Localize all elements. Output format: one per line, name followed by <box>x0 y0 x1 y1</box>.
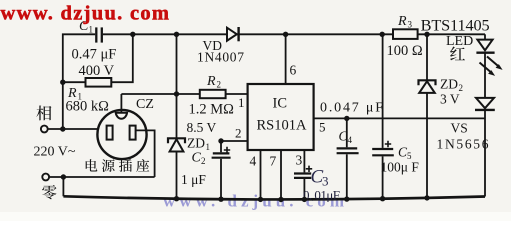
svg-text:0.47 μF: 0.47 μF <box>72 47 117 63</box>
svg-text:IC: IC <box>273 96 288 112</box>
svg-text:VS: VS <box>451 121 468 136</box>
wire: IC pin 5 feedback line to LED column <box>314 117 485 119</box>
capacitor C2 <box>212 141 231 199</box>
wire: phase input to socket <box>48 128 108 130</box>
svg-text:3: 3 <box>296 153 303 168</box>
wire: R2 to IC pin 1 <box>226 93 248 95</box>
resistor R2 <box>200 90 226 98</box>
IC U1 RS101A box <box>248 84 314 150</box>
svg-text:5: 5 <box>319 120 326 135</box>
svg-text:400 V: 400 V <box>79 63 115 79</box>
resistor R3 <box>393 29 418 39</box>
capacitor C3 on pin 3 <box>294 150 312 199</box>
svg-text:1.2 MΩ: 1.2 MΩ <box>189 102 235 118</box>
label C4 <box>339 129 353 146</box>
label C1 <box>79 19 93 35</box>
svg-text:3: 3 <box>408 20 413 30</box>
svg-text:R: R <box>206 74 216 89</box>
socket CZ ground hole <box>116 113 127 119</box>
svg-text:4: 4 <box>348 135 353 145</box>
label phase (xiang) <box>36 106 51 121</box>
label ZD1 <box>187 136 210 153</box>
svg-text:ZD: ZD <box>187 136 205 151</box>
wire: IC pin 2 to C2 <box>221 140 248 142</box>
diode VS 1N5656 <box>475 98 495 197</box>
svg-text:1: 1 <box>89 25 94 35</box>
zener ZD2 <box>419 34 436 198</box>
svg-text:7: 7 <box>270 154 277 169</box>
svg-text:4: 4 <box>250 154 257 169</box>
wire: R2 from ZD1 node <box>177 93 200 95</box>
wire: R1 branch left <box>63 81 86 83</box>
wire: ZD1 column from top bus <box>176 34 178 138</box>
svg-text:1N5656: 1N5656 <box>437 137 489 152</box>
LED emission arrows <box>480 57 503 76</box>
label R3 <box>397 14 413 30</box>
label C5 <box>398 145 412 162</box>
svg-text:3: 3 <box>322 174 329 189</box>
socket CZ right slot <box>130 126 136 140</box>
svg-text:ZD: ZD <box>440 77 458 92</box>
wire: bottom ground rail <box>63 196 485 199</box>
svg-text:100 Ω: 100 Ω <box>387 43 423 59</box>
label neutral (ling) <box>42 185 56 199</box>
svg-text:2: 2 <box>217 80 222 90</box>
wire: top bus from C1 to LED column <box>103 33 485 35</box>
capacitor C5 column from top bus <box>372 34 394 198</box>
svg-text:2: 2 <box>201 156 206 166</box>
socket CZ left slot <box>107 126 113 140</box>
svg-text:CZ: CZ <box>136 97 154 112</box>
wire: neutral drop to bottom rail <box>62 177 64 196</box>
svg-text:LED: LED <box>446 34 473 49</box>
wire: neutral to socket return <box>49 176 154 178</box>
svg-text:6: 6 <box>290 63 297 78</box>
label ZD2 <box>440 77 463 94</box>
svg-text:1: 1 <box>238 95 245 110</box>
svg-text:www. dzjuu. com: www. dzjuu. com <box>1 3 170 25</box>
wire: socket right slot to neutral <box>136 130 155 177</box>
svg-text:2: 2 <box>235 126 242 141</box>
svg-text:1 μF: 1 μF <box>181 172 206 187</box>
socket CZ outline <box>97 110 146 159</box>
label C2 <box>192 151 206 167</box>
capacitor C1 <box>96 27 102 42</box>
wire: IC pin 6 to top bus <box>285 34 287 84</box>
svg-text:3 V: 3 V <box>440 92 460 107</box>
svg-text:8.5 V: 8.5 V <box>187 120 217 135</box>
label C3 <box>311 167 329 189</box>
wire: R1 branch right up to top bus <box>111 34 133 82</box>
resistor R1 <box>86 78 112 87</box>
label R1 <box>67 86 82 102</box>
label LED red (hong) <box>450 47 465 61</box>
wire: IC pin 7 to ground <box>280 150 282 200</box>
svg-text:1: 1 <box>206 142 211 152</box>
svg-text:1N4007: 1N4007 <box>197 50 244 65</box>
svg-text:0. 01μF: 0. 01μF <box>303 188 340 203</box>
svg-text:BTS11405: BTS11405 <box>421 15 490 34</box>
LED column from top bus <box>484 34 486 39</box>
svg-text:R: R <box>397 14 407 29</box>
zener ZD1 <box>168 138 185 198</box>
wire: socket ground pin to ZD1 node <box>121 93 176 95</box>
svg-text:RS101A: RS101A <box>257 118 307 134</box>
node: neutral terminal <box>42 174 49 181</box>
diode VD 1N4007 <box>227 27 239 41</box>
label socket (dianyuan chazuo) <box>86 159 150 172</box>
svg-text:680 kΩ: 680 kΩ <box>66 99 110 115</box>
wire: socket ground pin up <box>120 94 122 113</box>
node: phase terminal <box>41 126 48 133</box>
wire: top bus left segment to C1 <box>63 34 95 129</box>
svg-text:220 V~: 220 V~ <box>34 145 76 160</box>
svg-text:C: C <box>192 151 202 166</box>
svg-text:100μ F: 100μ F <box>381 160 420 175</box>
capacitor C4 <box>337 118 359 199</box>
wire: IC pin 4 to ground <box>260 150 262 199</box>
LED D1 red <box>476 40 494 98</box>
label R2 <box>206 74 221 90</box>
